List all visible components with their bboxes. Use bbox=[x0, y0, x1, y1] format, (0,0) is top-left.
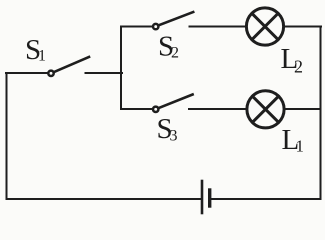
lamp L1 bbox=[247, 91, 284, 128]
label L1 bbox=[282, 124, 305, 156]
wire S1 branch left segment bbox=[6, 72, 48, 74]
wire right vertical bbox=[320, 27, 322, 200]
wire S2 fixed contact to lamp L2 bbox=[190, 26, 247, 28]
wire S1 fixed contact to junction bbox=[86, 72, 123, 74]
wire bottom left to battery bbox=[7, 198, 202, 200]
wire lamp L1 to right vertical bbox=[284, 108, 320, 110]
label S2 bbox=[158, 31, 179, 63]
wire middle junction vertical bbox=[120, 27, 122, 110]
switch S3 bbox=[153, 95, 193, 113]
label S1 bbox=[25, 34, 46, 66]
wire left vertical bbox=[6, 73, 8, 199]
svg-text:2: 2 bbox=[171, 45, 179, 62]
switch S1 bbox=[48, 57, 89, 76]
svg-text:1: 1 bbox=[296, 137, 305, 156]
wire lamp L2 to right edge bbox=[284, 26, 321, 28]
wire S3 fixed contact to lamp L1 bbox=[189, 108, 247, 110]
switch S2 bbox=[153, 12, 193, 29]
battery bbox=[202, 181, 210, 213]
svg-text:1: 1 bbox=[38, 48, 46, 65]
lamp L2 bbox=[246, 8, 283, 45]
label S3 bbox=[157, 113, 178, 145]
svg-text:2: 2 bbox=[294, 57, 303, 77]
wire bottom right from battery bbox=[211, 198, 321, 200]
svg-text:3: 3 bbox=[170, 128, 178, 145]
label L2 bbox=[281, 43, 304, 77]
wire top branch junction to S2 bbox=[121, 26, 152, 28]
wire S3 branch from junction bbox=[121, 108, 152, 110]
